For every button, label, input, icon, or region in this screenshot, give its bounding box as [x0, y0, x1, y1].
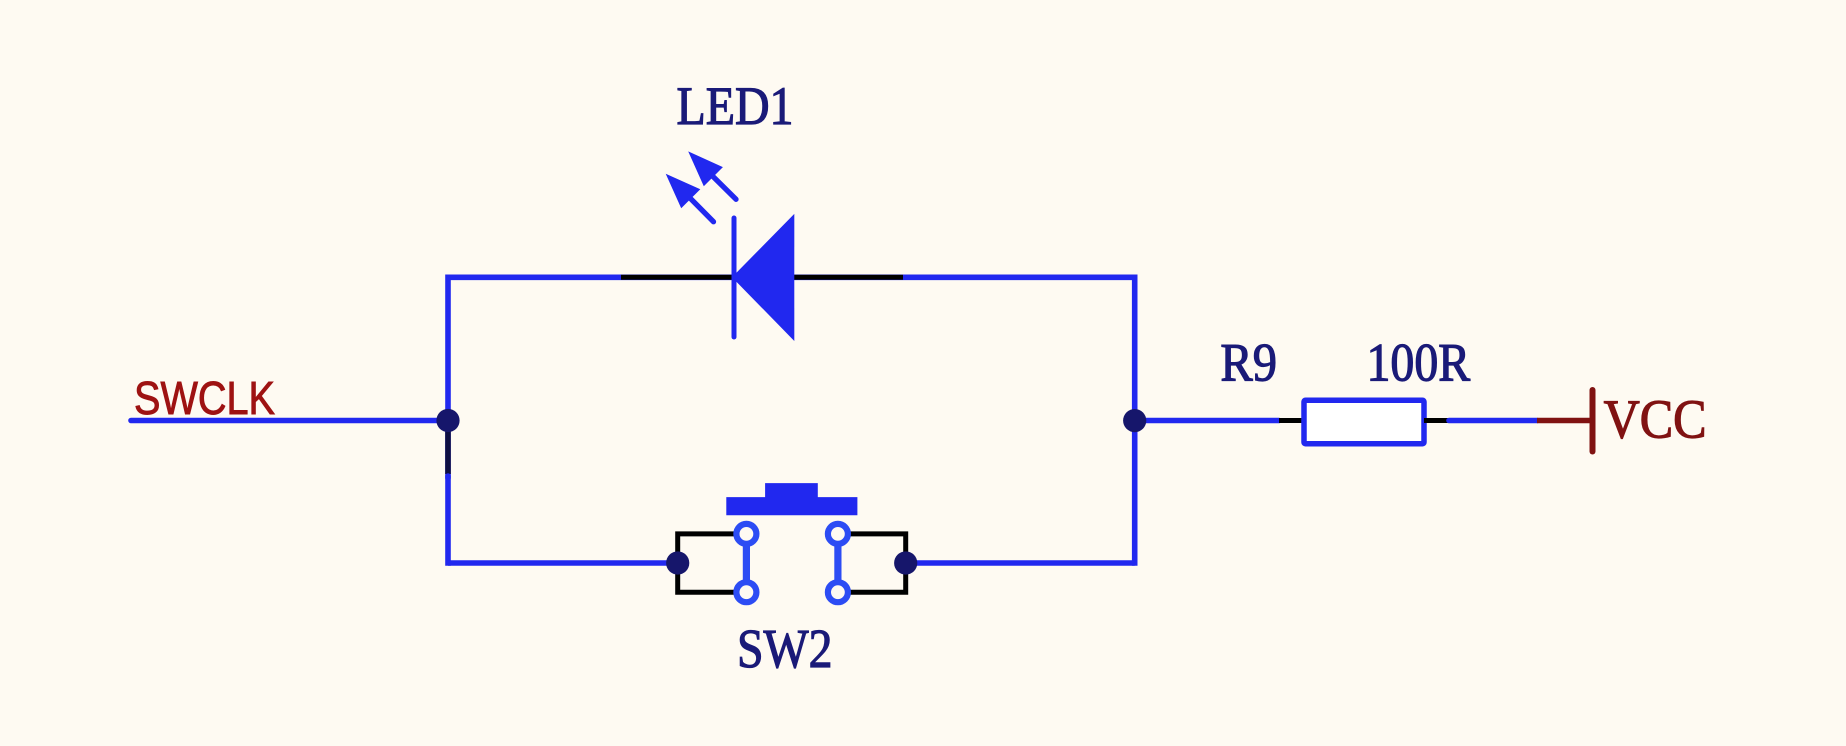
wire: loop left vertical + top rail + right vertical	[448, 277, 1135, 566]
switch SW2 contact connector right	[834, 545, 841, 581]
wire: bottom rail right blue segment	[906, 560, 1135, 566]
switch SW2 right bracket	[848, 534, 905, 592]
wire: blue segment to VCC	[1449, 418, 1537, 424]
wire: bottom rail left blue segment	[448, 560, 677, 566]
wire: dark stub below left junction	[445, 421, 451, 474]
resistor R9 right pin	[1424, 418, 1449, 423]
junction dot at SW2 left	[666, 551, 689, 574]
LED D1 cathode bar	[732, 218, 737, 337]
switch SW2 contact connector left	[743, 545, 750, 581]
switch SW2 button cap	[726, 483, 857, 515]
svg-text:LED1: LED1	[677, 76, 794, 136]
svg-text:SWCLK: SWCLK	[134, 372, 275, 424]
junction dot right	[1123, 409, 1146, 432]
switch SW2 left bracket	[678, 534, 736, 592]
wire: SWCLK net left horizontal	[131, 418, 447, 424]
svg-text:VCC: VCC	[1604, 389, 1707, 450]
junction dot at SW2 right	[894, 551, 917, 574]
VCC power stub wire	[1537, 418, 1592, 424]
wire: LED pins black segment	[621, 275, 903, 280]
wire: right horizontal blue to resistor	[1135, 418, 1279, 424]
LED D1 triangle	[732, 214, 794, 341]
switch SW2 pin circle bottom-right	[828, 582, 848, 602]
svg-text:100R: 100R	[1367, 333, 1471, 393]
switch SW2 pin circle top-left	[736, 524, 756, 544]
svg-text:R9: R9	[1220, 333, 1277, 393]
svg-text:SW2: SW2	[737, 618, 833, 679]
resistor R9 left pin	[1279, 418, 1304, 423]
VCC power bar	[1590, 390, 1596, 452]
LED light arrow 2	[688, 151, 736, 199]
junction dot left	[436, 409, 459, 432]
resistor R9 body	[1304, 400, 1424, 444]
switch SW2 pin circle bottom-left	[736, 582, 756, 602]
switch SW2 pin circle top-right	[828, 524, 848, 544]
LED light arrow 1	[666, 174, 714, 222]
